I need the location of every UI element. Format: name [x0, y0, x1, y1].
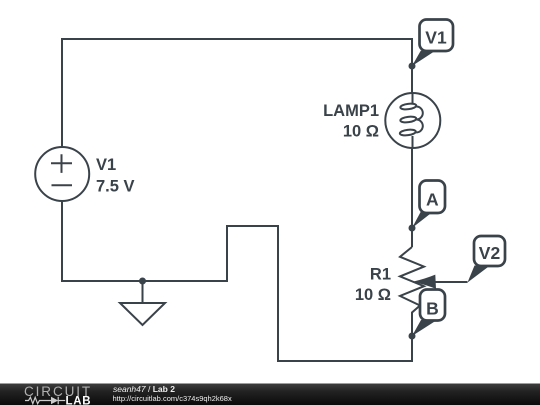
svg-text:10 Ω: 10 Ω	[355, 286, 391, 304]
svg-text:V1: V1	[425, 28, 447, 48]
svg-text:LAMP1: LAMP1	[323, 102, 379, 120]
svg-text:10 Ω: 10 Ω	[343, 123, 379, 141]
svg-text:LAB: LAB	[66, 395, 92, 405]
svg-text:seanh47 / Lab 2: seanh47 / Lab 2	[113, 384, 175, 394]
svg-text:R1: R1	[370, 266, 391, 284]
svg-text:http://circuitlab.com/c374s9qh: http://circuitlab.com/c374s9qh2k68x	[113, 394, 232, 403]
svg-text:V2: V2	[479, 243, 501, 263]
svg-text:7.5 V: 7.5 V	[96, 178, 135, 196]
svg-text:V1: V1	[96, 156, 116, 174]
svg-text:A: A	[426, 190, 439, 210]
svg-text:B: B	[426, 298, 439, 318]
